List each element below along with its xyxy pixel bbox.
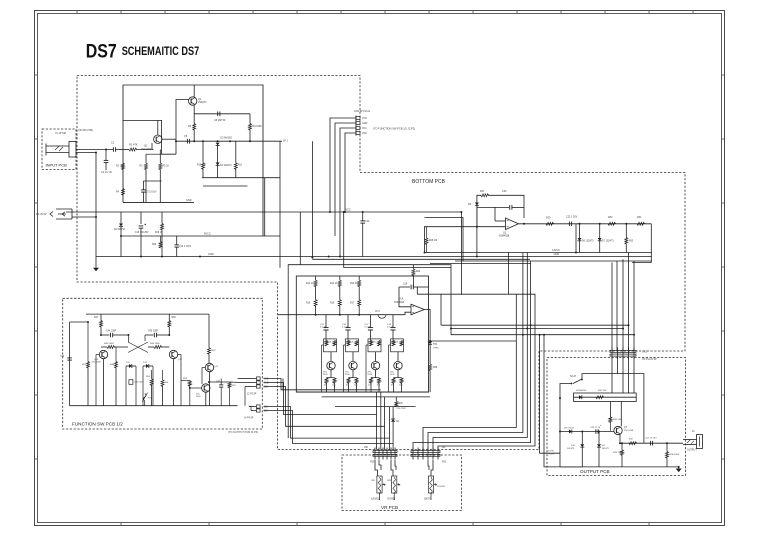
resistor R39 <box>621 443 623 450</box>
svg-text:0.1 25: 0.1 25 <box>320 327 327 329</box>
wire CP pin5 drop <box>633 358 635 394</box>
svg-text:R27: R27 <box>480 190 485 193</box>
svg-text:R2 1M: R2 1M <box>116 166 123 168</box>
svg-text:C1: C1 <box>111 141 115 145</box>
wire output line <box>620 442 683 444</box>
svg-text:GND: GND <box>186 199 192 202</box>
resistor R52 <box>208 314 210 348</box>
svg-text:INPUT PCB: INPUT PCB <box>46 163 68 168</box>
svg-text:R29: R29 <box>546 217 551 220</box>
wire to output pcb entry1 <box>540 335 560 454</box>
transistor Q1 <box>189 97 197 105</box>
connector J50/P50 <box>373 451 397 453</box>
wire U2 out corner <box>632 224 651 263</box>
OUTPUT PCB dashed box <box>547 358 686 476</box>
svg-text:NJM2904: NJM2904 <box>394 301 405 304</box>
flip-flop cross wires <box>128 342 148 353</box>
diode D5 <box>475 203 479 206</box>
feedback capacitor C19 <box>399 286 410 288</box>
svg-text:GND: GND <box>362 122 368 125</box>
resistor R15 <box>314 300 317 307</box>
resistor R37 <box>629 442 637 445</box>
capacitor C44 100P <box>101 334 110 336</box>
capacitor C40 left <box>67 357 72 359</box>
resistor R2 <box>122 162 124 164</box>
svg-text:14VCC: 14VCC <box>552 249 560 252</box>
svg-text:OUTPUT PCB: OUTPUT PCB <box>580 469 610 474</box>
wire GND spur to CP <box>451 328 623 330</box>
wire Q7 emitter to output <box>619 434 621 443</box>
svg-text:R48 100K: R48 100K <box>104 343 114 345</box>
resistor R16 <box>338 300 341 307</box>
capacitor C26 electrolytic <box>595 429 597 434</box>
inner bias box <box>123 120 176 154</box>
svg-text:VD2: VD2 <box>362 132 367 135</box>
wire cell base Q6 <box>392 339 394 342</box>
wire aux bus B <box>430 263 531 265</box>
wire CP pin2 drop to switch <box>582 358 618 380</box>
svg-text:C46 220P: C46 220P <box>134 382 144 384</box>
wire input signal <box>76 149 113 151</box>
wire bus to CP pin2 <box>616 261 618 350</box>
svg-text:R19 1K: R19 1K <box>155 232 163 234</box>
diode D7 <box>599 224 601 238</box>
wire vertical x441 <box>440 294 442 325</box>
resistor R32 <box>625 224 627 238</box>
transistor Q3 2SC2458 <box>327 361 335 369</box>
cell emitter resistor Q5b <box>378 377 380 379</box>
capacitor C17 cell <box>370 315 372 328</box>
resistor R56 10K <box>162 370 164 380</box>
wire spur to CP pin5 <box>451 334 634 336</box>
resistor R46 <box>115 347 117 362</box>
svg-text:C12: C12 <box>365 220 370 223</box>
wire 14VCC bus <box>430 252 652 254</box>
diode D11 <box>126 365 129 367</box>
svg-text:DS7: DS7 <box>86 42 117 63</box>
capacitor C21 on -input <box>477 206 509 208</box>
wire FSW link 2 <box>264 383 377 415</box>
svg-text:JP J: JP J <box>283 140 289 143</box>
resistor R28 to gnd <box>424 227 426 253</box>
wire vertical x280 drop <box>279 178 281 268</box>
wire FSW pins feed <box>238 378 254 380</box>
svg-text:C19: C19 <box>403 284 408 286</box>
svg-text:2SA673: 2SA673 <box>198 101 207 104</box>
wire cells bus 3 <box>335 406 416 408</box>
wire to output pcb entry2 <box>544 335 582 467</box>
capacitor C13 electrolytic <box>140 212 142 224</box>
resistor R9 <box>249 114 251 124</box>
svg-text:1S2473: 1S2473 <box>602 448 610 450</box>
svg-text:9VCC: 9VCC <box>204 233 211 236</box>
svg-text:R32: R32 <box>629 241 634 243</box>
diode D9 <box>569 430 572 434</box>
transistor Q2 <box>154 135 162 143</box>
resistor R35 <box>596 396 604 399</box>
wire switch to left column <box>560 384 571 467</box>
wire drops to J50 <box>376 392 378 449</box>
wire U2 -input <box>495 220 506 222</box>
svg-text:R15: R15 <box>306 303 311 305</box>
svg-text:D3 1S2473: D3 1S2473 <box>220 165 232 167</box>
BOTTOM PCB dashed outline <box>77 76 685 450</box>
resistor R36 <box>609 402 611 418</box>
svg-text:R13 1K: R13 1K <box>330 283 338 285</box>
wire J51 feed 1 <box>423 294 516 449</box>
svg-text:R1 47K: R1 47K <box>129 143 138 147</box>
svg-text:P3 IN: P3 IN <box>548 451 554 453</box>
svg-text:R5 1K: R5 1K <box>163 166 170 168</box>
svg-text:D1 MA150: D1 MA150 <box>114 228 126 231</box>
svg-text:R50: R50 <box>172 317 177 319</box>
svg-text:VCC: VCC <box>362 117 367 120</box>
svg-text:GND: GND <box>554 253 560 256</box>
transistor Q12 <box>205 363 213 371</box>
wire cells bus 2 <box>322 396 431 398</box>
capacitor C5 <box>186 139 188 144</box>
capacitor C45 100P <box>145 334 153 336</box>
cell resistor box Q3 <box>324 339 337 352</box>
svg-text:D18: D18 <box>264 387 269 389</box>
svg-text:VCC: VCC <box>346 209 351 212</box>
capacitor C22 series <box>568 222 570 227</box>
INPUT PCB dashed box <box>42 129 76 170</box>
cell emitter resistor Q3b <box>334 377 336 379</box>
svg-text:(TO FUNCTION SW PCB 1/2 J2,P2): (TO FUNCTION SW PCB 1/2 J2,P2) <box>373 127 415 131</box>
svg-text:D7 1S2473: D7 1S2473 <box>602 241 614 243</box>
wire FSW link 4 <box>264 407 390 439</box>
diode D3 <box>216 163 220 166</box>
svg-text:PLUG: PLUG <box>548 453 554 455</box>
wire base row <box>560 431 614 433</box>
FSW pin J2-2 <box>254 382 257 384</box>
wire CP pin3 drop <box>622 358 624 394</box>
svg-text:VR 2P(1.5M): VR 2P(1.5M) <box>78 128 93 132</box>
svg-text:C8 16P 50: C8 16P 50 <box>214 119 226 122</box>
FSW pin J4-2 <box>254 410 257 412</box>
FSW pin J4-1 <box>254 406 257 408</box>
wire aux bus A <box>455 260 652 262</box>
wire nested L1 <box>282 379 284 390</box>
wire J51 feed 2 <box>428 253 523 450</box>
svg-text:P50: P50 <box>370 461 375 464</box>
svg-text:C27 47 25V: C27 47 25V <box>645 438 657 440</box>
svg-text:J2 P2 5P: J2 P2 5P <box>247 394 257 396</box>
resistor R20 <box>159 242 162 249</box>
diode D4 up <box>392 407 394 419</box>
resistor R26 <box>429 364 432 371</box>
svg-text:C20: C20 <box>502 190 507 193</box>
svg-text:D8 MA150: D8 MA150 <box>576 389 587 392</box>
svg-text:R 10KB: R 10KB <box>437 486 445 488</box>
feedback resistor R24 <box>412 265 414 269</box>
pot VR2 TONE <box>391 460 393 476</box>
svg-text:THEV: THEV <box>433 348 439 350</box>
svg-text:(DIST): (DIST) <box>424 498 431 501</box>
switch S2 <box>573 379 582 384</box>
resistor R3 <box>145 154 147 163</box>
wire cell base Q3 <box>325 339 327 342</box>
wire CN2 pin1 <box>330 118 350 212</box>
resistor R53 <box>189 379 191 381</box>
svg-text:0.1 25: 0.1 25 <box>342 327 349 329</box>
svg-text:J50: J50 <box>364 446 369 449</box>
wire U1A output <box>424 310 430 342</box>
resistor R5 <box>159 150 161 164</box>
capacitor C12 on x362 drop <box>362 212 364 221</box>
resistor R13 <box>339 276 341 280</box>
wire J51 feed 4 <box>413 261 531 450</box>
wire CP pin1 drop <box>611 358 613 394</box>
resistor R55 <box>151 370 153 379</box>
wire output row D/R <box>574 396 637 398</box>
svg-text:R31: R31 <box>637 216 642 219</box>
ground output <box>678 467 680 469</box>
resistor R47 <box>100 314 102 320</box>
diode D1 <box>120 212 122 224</box>
cell emitter resistor Q4b <box>356 377 358 379</box>
resistor R29 series <box>546 222 554 225</box>
svg-text:NJM4558: NJM4558 <box>499 235 510 238</box>
resistor R50 <box>168 314 170 320</box>
wire Q2 collector to Q1 base <box>176 100 189 155</box>
resistor R51 1M <box>87 322 89 362</box>
wire vertical x300 <box>299 212 301 265</box>
svg-text:P51: P51 <box>442 461 447 464</box>
input jack J1 <box>69 142 76 158</box>
svg-text:DC IN 9V: DC IN 9V <box>36 213 47 216</box>
svg-text:C23 470P: C23 470P <box>396 408 406 410</box>
thermistor RT1 <box>143 394 146 401</box>
svg-text:R24: R24 <box>416 271 421 273</box>
svg-text:VD1: VD1 <box>362 127 367 130</box>
wire y341 link <box>430 340 516 342</box>
wire cell base Q5 <box>370 339 372 342</box>
wire FSW bottom rail <box>70 405 238 407</box>
svg-text:10K: 10K <box>165 382 169 384</box>
svg-text:R39 10K: R39 10K <box>613 452 622 454</box>
svg-text:R9 100K: R9 100K <box>253 125 263 128</box>
wire Q7 collector <box>620 402 622 427</box>
capacitor C1 <box>112 147 114 152</box>
svg-text:TH1: TH1 <box>433 344 438 346</box>
wire bias lower <box>203 185 248 187</box>
svg-text:2SC2458: 2SC2458 <box>624 430 634 432</box>
resistor R17 <box>358 300 361 307</box>
diode D6 <box>579 224 581 238</box>
wire bus to CP pin1 <box>611 262 613 350</box>
svg-text:1S2473: 1S2473 <box>567 448 575 450</box>
wire aux vertical 644 <box>618 374 644 444</box>
junction dots <box>105 149 107 151</box>
transistor Q7 2SC2458 <box>614 426 622 434</box>
svg-text:J1 2P 6M: J1 2P 6M <box>55 131 66 135</box>
wire jack sleeve to ground <box>76 153 96 268</box>
wire drive input <box>278 312 411 315</box>
component box D8/R35 <box>574 393 637 402</box>
diode D2 <box>216 143 220 146</box>
wire FSW right link <box>220 379 222 384</box>
cell emitter resistor Q5a <box>370 377 372 379</box>
wire FSW left column <box>69 322 71 406</box>
op-amp U1A NJM2904 <box>411 304 424 315</box>
resistor R6 <box>193 114 195 124</box>
transistor Q13 2SC2458 <box>202 384 210 392</box>
DC jack <box>56 209 72 219</box>
pot VR3 DIST <box>431 460 433 476</box>
svg-text:R20: R20 <box>152 244 157 246</box>
transistor Q4 2SC2458 <box>349 361 357 369</box>
svg-text:GND: GND <box>264 383 269 385</box>
capacitor C46 220P <box>129 380 133 385</box>
wire FSW link 3 <box>264 387 385 427</box>
connector J51/P51 <box>411 451 440 453</box>
wire FSW link 1 <box>264 379 381 390</box>
svg-text:C45 100P: C45 100P <box>148 331 159 333</box>
svg-text:CN2 4P PLUG: CN2 4P PLUG <box>354 110 370 113</box>
wire vertical x264 <box>264 178 266 236</box>
svg-text:R30: R30 <box>608 216 613 219</box>
svg-text:R49 100K: R49 100K <box>150 343 160 345</box>
svg-text:R10 22K: R10 22K <box>197 165 206 167</box>
svg-text:CN1: CN1 <box>642 351 648 354</box>
svg-text:J51: J51 <box>442 446 447 449</box>
resistor R11 <box>235 141 237 163</box>
wire vertical x463 <box>425 218 464 262</box>
FSW pin J2-3 <box>254 386 257 388</box>
wire vertical x508 <box>508 253 510 295</box>
wire 14VCC spur to CP <box>441 324 629 326</box>
cell emitter resistor Q4a <box>348 377 350 379</box>
svg-text:C19: C19 <box>264 411 269 413</box>
capacitor C15 cell <box>325 315 327 328</box>
svg-text:R16: R16 <box>330 303 335 305</box>
wire cells bottom bus <box>296 391 428 393</box>
svg-text:R35 10K: R35 10K <box>598 390 607 392</box>
wire CN2 pin2 <box>335 123 350 236</box>
pot VR1 LEVEL <box>375 460 378 476</box>
svg-text:J4 P4 5P: J4 P4 5P <box>244 418 254 420</box>
wire center top edge <box>288 265 451 438</box>
svg-text:C26 47 16: C26 47 16 <box>590 427 601 429</box>
svg-text:C3 10 16V: C3 10 16V <box>146 192 157 194</box>
connector CP/CN 5P <box>610 350 636 352</box>
resistor R12 <box>315 276 317 280</box>
feedback resistor R27 <box>477 195 481 226</box>
wire vertical x343 <box>344 212 451 268</box>
op-amp U2 NJM4558 <box>506 218 519 230</box>
cell emitter resistor Q6a <box>393 377 395 379</box>
svg-text:D9 1S133: D9 1S133 <box>564 428 575 430</box>
svg-text:2SC2458: 2SC2458 <box>92 362 102 364</box>
cell resistor box Q4 <box>346 339 359 352</box>
resistor R10 <box>202 141 204 163</box>
capacitor C14 <box>176 236 178 245</box>
VR PCB dashed box <box>342 455 462 511</box>
svg-text:D2 MA150: D2 MA150 <box>221 137 233 140</box>
resistor R1 <box>129 148 137 151</box>
wire CN2 pin3 <box>340 128 350 257</box>
capacitor C8 <box>217 112 219 117</box>
svg-text:R12 1K: R12 1K <box>306 283 314 285</box>
svg-text:D6 1S2473: D6 1S2473 <box>582 241 594 243</box>
resistor R30 series <box>608 222 616 225</box>
cell resistor box Q6 <box>391 339 404 352</box>
capacitor C16 cell <box>347 315 349 328</box>
svg-text:C44 100P: C44 100P <box>106 331 117 333</box>
cell emitter resistor Q3a <box>326 377 328 379</box>
diode D10a <box>581 432 583 445</box>
wire y294 long <box>438 212 535 450</box>
node JP J <box>279 141 281 178</box>
resistor R4 <box>122 189 125 196</box>
resistor R38 100K <box>666 443 668 451</box>
FSW pin J2-1 <box>254 378 257 380</box>
svg-text:C2 1U IN: C2 1U IN <box>101 170 112 174</box>
resistor R14 <box>358 276 360 280</box>
svg-text:0.1 25: 0.1 25 <box>365 327 372 329</box>
resistor R48 <box>101 346 107 348</box>
resistor R19 <box>161 212 163 224</box>
svg-text:R47: R47 <box>94 317 99 319</box>
wire clip network bottom <box>575 224 577 253</box>
capacitor C18 cell <box>392 315 394 328</box>
svg-text:C18: C18 <box>264 407 269 409</box>
svg-text:VCC: VCC <box>264 379 269 381</box>
svg-text:FUNCTION SW PCB 1/2: FUNCTION SW PCB 1/2 <box>72 422 123 427</box>
svg-text:R25: R25 <box>399 403 404 405</box>
resistor R49 <box>148 346 154 348</box>
thermistor TH1 <box>429 340 431 343</box>
svg-text:C13 100 25V: C13 100 25V <box>135 232 149 234</box>
wire U2 +input <box>424 226 506 228</box>
wire 9VCC rail <box>121 235 280 237</box>
svg-text:OUTPUT: OUTPUT <box>687 449 697 452</box>
wire U2 output <box>519 223 652 225</box>
input stage box <box>123 85 263 236</box>
svg-text:SCHEMAITIC DS7: SCHEMAITIC DS7 <box>122 45 200 58</box>
svg-text:(TO OUTPUT PCB J4,P4): (TO OUTPUT PCB J4,P4) <box>228 430 258 434</box>
capacitor C47 <box>220 383 222 386</box>
svg-text:R14 1K: R14 1K <box>350 283 358 285</box>
capacitor C3 <box>142 181 144 190</box>
FUNCTION SW PCB dashed box <box>63 298 263 429</box>
svg-text:C22 1 50V: C22 1 50V <box>566 216 578 219</box>
svg-text:S2 AT: S2 AT <box>570 375 577 378</box>
wire vertical x312 <box>311 141 313 257</box>
svg-text:0.1 25: 0.1 25 <box>387 327 394 329</box>
wire y294 feed from U1A <box>417 293 462 295</box>
svg-text:R28 1M: R28 1M <box>429 240 437 242</box>
svg-text:GND: GND <box>208 253 214 256</box>
svg-text:R38 100K: R38 100K <box>670 454 680 456</box>
wire VCC rail <box>66 211 461 213</box>
svg-text:JP 2: JP 2 <box>375 310 380 313</box>
wire FSW link 5 <box>264 411 394 444</box>
diode D12 <box>143 365 146 367</box>
diode D8 <box>579 395 582 399</box>
svg-text:BOTTOM PCB: BOTTOM PCB <box>412 179 446 185</box>
svg-text:CP PLUG 5P: CP PLUG 5P <box>642 358 657 361</box>
connector CN2 <box>355 116 357 136</box>
wire audio node <box>176 140 282 142</box>
svg-text:R36 10K: R36 10K <box>613 419 622 421</box>
wire GND bus <box>96 256 652 258</box>
svg-text:C14 1 CON: C14 1 CON <box>179 246 191 248</box>
svg-text:R26: R26 <box>433 367 438 369</box>
cell emitter resistor Q6b <box>401 377 403 379</box>
